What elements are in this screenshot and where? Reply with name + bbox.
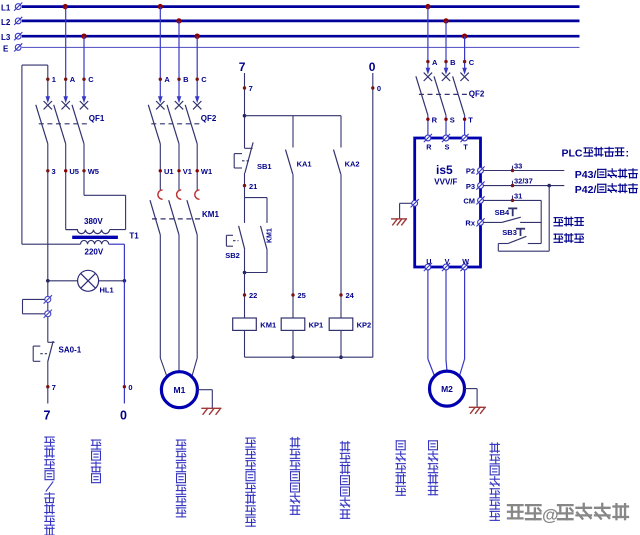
svg-text:0: 0 — [128, 383, 132, 392]
contact KM1 auxiliary blade — [261, 226, 268, 250]
node 0 mid — [371, 86, 374, 89]
node U1 — [159, 169, 162, 172]
junction on power rail — [158, 4, 163, 9]
inverter terminal P3 — [476, 182, 484, 190]
svg-text:QF2: QF2 — [201, 114, 217, 123]
terminal L3 — [14, 32, 22, 40]
svg-text:C: C — [469, 58, 475, 67]
svg-text:@: @ — [542, 506, 559, 525]
ground inverter — [391, 218, 407, 225]
switch SA0-1 fixed bar — [48, 341, 55, 343]
switch SA0-1 actuator — [32, 346, 34, 361]
svg-text:SB2: SB2 — [225, 251, 240, 260]
svg-text:33: 33 — [514, 162, 522, 171]
circuit breaker QF2 trip linkage — [151, 123, 200, 125]
power rail L3 — [22, 35, 580, 38]
svg-text:KA2: KA2 — [345, 159, 360, 168]
wire 220V right lead — [109, 243, 125, 245]
svg-text:U1: U1 — [164, 167, 174, 176]
junction P3 branch — [547, 184, 551, 188]
coil KP1 — [281, 318, 305, 330]
ground rail E — [22, 46, 580, 48]
terminal L1 — [14, 3, 22, 11]
wire KM1 pole3 to M1 — [196, 235, 198, 358]
wire number flag 32/37 — [512, 181, 514, 186]
wire M1 to ground — [197, 389, 212, 391]
svg-text:U: U — [426, 257, 431, 266]
inverter terminal P2 — [476, 166, 484, 174]
node W5 — [82, 169, 85, 172]
circuit breaker QF1 pole 1 contact — [46, 96, 51, 103]
wire KA2 upper — [340, 116, 342, 148]
contactor KM1 pole 1 contact — [158, 190, 163, 199]
connector terminal upper — [44, 295, 52, 303]
svg-text:is5: is5 — [436, 163, 453, 177]
switch SB4 blade — [502, 217, 521, 222]
svg-text:T: T — [468, 115, 473, 124]
svg-text:W5: W5 — [88, 167, 99, 176]
wire KA2 to node24 — [340, 174, 342, 318]
node C qf2 — [196, 78, 199, 81]
svg-text:380V: 380V — [84, 217, 103, 226]
terminal E — [14, 43, 22, 51]
circuit breaker QF2 pole C contact — [195, 96, 200, 103]
transformer T1 secondary winding 220V — [81, 240, 109, 244]
wire QF2 poleC lower — [196, 144, 198, 190]
wire L2 to QF2 pole B — [178, 21, 180, 97]
wire number flag 31 — [512, 196, 514, 201]
wire Rx output — [483, 221, 501, 223]
junction lamp-left — [46, 279, 50, 283]
svg-text:KP2: KP2 — [357, 321, 372, 330]
svg-text:24: 24 — [346, 291, 355, 300]
wire L2 to QF2r pole B — [445, 21, 447, 69]
wire QF2r poleB to S — [445, 115, 447, 135]
junction on power rail — [443, 18, 448, 23]
svg-text:L3: L3 — [1, 33, 11, 42]
wire 220V left lead — [22, 243, 81, 245]
contactor KM1 linkage — [152, 218, 200, 220]
node U5 — [64, 169, 67, 172]
wire QF2r poleC to T — [464, 115, 466, 135]
svg-text:31: 31 — [514, 192, 522, 201]
switch SB3 actuator — [516, 228, 525, 230]
motor M2 — [430, 371, 465, 406]
node 0 left — [123, 385, 126, 388]
svg-text:C: C — [88, 75, 94, 84]
svg-text:32/37: 32/37 — [514, 177, 533, 186]
wire W5 jog — [84, 194, 126, 196]
wire QF1 poleA lower — [65, 144, 67, 230]
wire lamp row right — [99, 280, 125, 282]
wire inverter ground — [400, 202, 412, 204]
wire SB3 left feed — [498, 243, 508, 245]
junction on power rail — [176, 18, 181, 23]
contact KA1 blade — [286, 150, 293, 175]
svg-text:3: 3 — [52, 167, 56, 176]
circuit breaker QF2r pole B contact — [444, 68, 449, 75]
pushbutton SB1 fixed bar — [245, 147, 253, 149]
connector bypass wire — [23, 298, 45, 300]
circuit breaker QF2r pole C contact — [462, 68, 467, 75]
wire SB3 right terminal — [528, 243, 541, 245]
svg-text:0: 0 — [120, 409, 127, 423]
label shou dong tui — [554, 218, 562, 226]
node A — [64, 78, 67, 81]
svg-text:B: B — [183, 75, 189, 84]
junction on power rail — [81, 34, 86, 39]
svg-text:W1: W1 — [201, 167, 212, 176]
wire 7 rail — [244, 73, 246, 148]
junction KP1 rail — [291, 355, 295, 359]
wire P3 branch loop — [548, 186, 550, 252]
wire L3 to QF2 pole C — [196, 36, 198, 97]
ground M1 — [201, 408, 221, 415]
svg-text:P43/: P43/ — [575, 169, 597, 181]
wire KP2 coil to rail — [340, 330, 342, 357]
svg-text:7: 7 — [52, 383, 56, 392]
junction on power rail — [63, 4, 68, 9]
inverter terminal CM — [476, 196, 484, 204]
wire P2 output 33 — [483, 170, 564, 172]
transformer T1 primary winding 380V — [66, 230, 110, 234]
wire below connector — [47, 317, 49, 342]
wire L1 to QF2 pole A — [159, 7, 161, 97]
inverter terminal T — [461, 134, 469, 142]
power rail L2 — [22, 20, 580, 23]
inverter terminal W — [461, 263, 469, 271]
svg-text:CM: CM — [463, 197, 475, 206]
wire parallel branch bottom — [244, 249, 246, 272]
svg-text:SB1: SB1 — [257, 162, 272, 171]
node 7 left — [46, 385, 49, 388]
wire 0 rail — [372, 73, 374, 357]
switch SB4 actuator — [508, 207, 517, 209]
ground M2 — [469, 407, 486, 414]
svg-text:P3: P3 — [466, 182, 475, 191]
wire above connector — [47, 281, 49, 297]
connector terminal lower — [44, 310, 52, 318]
svg-text::: : — [626, 147, 630, 159]
svg-text:22: 22 — [249, 291, 257, 300]
svg-text:SB3: SB3 — [502, 228, 517, 237]
inverter terminal V — [442, 263, 450, 271]
junction on power rail — [425, 4, 430, 9]
circuit breaker QF2 pole B contact — [177, 96, 182, 103]
contactor KM1 pole 2 contact — [177, 190, 182, 199]
svg-text:T1: T1 — [129, 231, 139, 240]
svg-text:220V: 220V — [85, 247, 104, 256]
svg-text:25: 25 — [298, 291, 306, 300]
svg-text:KM1: KM1 — [202, 210, 219, 219]
svg-text:M1: M1 — [173, 385, 185, 395]
pushbutton SB1 actuator — [233, 154, 235, 168]
svg-text:T: T — [463, 143, 468, 152]
label column youbeng dianji zhu dianlu — [176, 440, 185, 449]
circuit breaker QF1 pole C contact — [82, 96, 87, 103]
circuit breaker QF2 pole A contact — [158, 96, 163, 103]
svg-text:7: 7 — [44, 409, 51, 423]
svg-text:B: B — [450, 58, 456, 67]
indicator lamp HL1 — [78, 270, 99, 291]
contact KA2 blade — [334, 150, 341, 175]
svg-text:L2: L2 — [1, 18, 11, 27]
svg-text:QF1: QF1 — [89, 114, 105, 123]
wire node22 — [244, 273, 246, 319]
wire lamp row left — [48, 280, 78, 282]
watermark toutiao — [508, 505, 523, 518]
svg-text:M2: M2 — [441, 384, 453, 394]
terminal L2 — [14, 17, 22, 25]
svg-text:A: A — [432, 58, 438, 67]
switch SA0-1 blade — [48, 341, 53, 362]
motor M1 — [161, 372, 197, 408]
svg-text:R: R — [432, 115, 438, 124]
wire 220V neutral drop — [123, 281, 125, 404]
wire node1 drop — [47, 65, 49, 97]
svg-text:KP1: KP1 — [309, 321, 324, 330]
svg-text:SA0-1: SA0-1 — [59, 345, 82, 354]
svg-text:P42/: P42/ — [575, 184, 597, 196]
svg-text:KM1: KM1 — [267, 228, 274, 243]
svg-text:A: A — [164, 75, 170, 84]
svg-text:QF2: QF2 — [469, 89, 485, 98]
svg-text:P2: P2 — [466, 167, 475, 176]
wire QF1 pole1 lower — [47, 144, 49, 281]
inverter terminal U — [424, 263, 432, 271]
svg-text:E: E — [3, 44, 9, 53]
label column youbeng dianji kongzhi dianlu — [246, 438, 255, 447]
svg-text:U5: U5 — [69, 167, 79, 176]
wire KA1 upper — [292, 116, 294, 148]
junction rejoin — [243, 271, 247, 275]
coil KP2 — [329, 318, 353, 330]
wire QF2r poleA to R — [427, 115, 429, 135]
junction on power rail — [462, 34, 467, 39]
wire KM1 pole1 to M1 — [159, 235, 161, 358]
inverter terminal S — [442, 134, 450, 142]
label column bianpin shoudong tui — [429, 441, 438, 450]
contactor KM1 pole 3 contact — [195, 190, 200, 199]
wire KA1 to node25 — [292, 174, 294, 318]
wire number flag 33 — [512, 166, 514, 171]
svg-text:SB4: SB4 — [495, 208, 510, 217]
wire SB1 to node21 — [244, 173, 246, 198]
inverter U1 box — [415, 138, 481, 267]
power rail L1 — [22, 5, 580, 8]
junction on power rail — [195, 34, 200, 39]
wire inverter V to M2 — [445, 270, 447, 360]
node B qf2r — [444, 60, 447, 63]
svg-text:A: A — [70, 75, 76, 84]
wire M2 to ground — [465, 388, 478, 390]
svg-text:7: 7 — [239, 60, 246, 74]
svg-text:7: 7 — [249, 84, 253, 93]
wire QF2 poleA lower — [159, 144, 161, 190]
svg-text:VVV/F: VVV/F — [434, 177, 457, 186]
svg-text:Rx: Rx — [465, 219, 475, 228]
label column daoju shangxing qiyafa — [340, 441, 349, 451]
junction KP2 rail — [339, 355, 343, 359]
label column dianyuan zhishi — [91, 440, 100, 449]
pushbutton SB2 blade — [244, 198, 246, 223]
circuit breaker QF2r trip linkage — [419, 93, 468, 95]
node A qf2 — [159, 78, 162, 81]
wire control tap horizontal — [22, 64, 48, 66]
wire L3 to QF1 pole C — [83, 36, 85, 97]
svg-text:0: 0 — [377, 84, 381, 93]
svg-text:PLC: PLC — [562, 147, 583, 159]
svg-text:1: 1 — [52, 75, 56, 84]
wire KP1 coil to rail — [292, 330, 294, 357]
node C qf2r — [463, 60, 466, 63]
wire inverter W to M2 — [464, 270, 466, 359]
wire KM1 coil to rail — [244, 330, 246, 357]
node R — [426, 118, 429, 121]
svg-text:L1: L1 — [1, 4, 11, 13]
svg-text:S: S — [450, 115, 455, 124]
node 25 — [291, 293, 294, 296]
svg-text:R: R — [426, 143, 432, 152]
node A qf2r — [426, 60, 429, 63]
node 24 — [339, 293, 342, 296]
wire L3 to QF2r pole C — [464, 36, 466, 68]
wire between connector terminals — [47, 303, 49, 311]
label column daoju xiaxing qiyafa — [290, 437, 299, 447]
wire inverter U to M2 — [427, 270, 429, 359]
svg-text:W: W — [462, 257, 469, 266]
node 21 — [243, 184, 246, 187]
node 3 — [46, 169, 49, 172]
label column zouliao bianpin zhu dianlu — [490, 443, 499, 453]
wire bottom rail — [245, 356, 373, 358]
svg-text:0: 0 — [369, 60, 376, 74]
label shou dong jin — [554, 234, 562, 242]
svg-text:21: 21 — [249, 182, 257, 191]
circuit breaker QF1 trip linkage — [39, 123, 87, 125]
wire branch horizontal — [245, 115, 342, 117]
svg-text:V1: V1 — [183, 167, 192, 176]
svg-text:V: V — [445, 257, 450, 266]
node W1 — [196, 169, 199, 172]
node 22 — [243, 293, 246, 296]
node C — [82, 78, 85, 81]
wire CM output 31 — [483, 199, 541, 201]
node 7 mid — [243, 86, 246, 89]
wire SB4 to CM — [520, 221, 541, 223]
wire control tap left vertical — [21, 65, 23, 244]
coil KM1 — [233, 318, 257, 330]
junction branch — [243, 114, 247, 118]
node T — [463, 118, 466, 121]
label column bianpin shoudong jin — [396, 441, 405, 450]
label column kongzhi dianyuan — [45, 437, 54, 446]
wire L1 to QF1 pole A — [65, 7, 67, 97]
circuit breaker QF1 pole A contact — [63, 96, 68, 103]
node S — [444, 118, 447, 121]
transformer T1 core — [72, 236, 118, 239]
svg-text:KA1: KA1 — [297, 159, 312, 168]
svg-text:S: S — [445, 143, 450, 152]
inverter terminal R — [424, 134, 432, 142]
svg-text:C: C — [201, 75, 207, 84]
node 1 — [46, 78, 49, 81]
wire QF1 poleC lower — [83, 144, 85, 196]
wire KM1 pole2 to M1 — [178, 235, 180, 372]
wire L1 to QF2r pole A — [427, 7, 429, 69]
inverter terminal Rx — [476, 218, 484, 226]
svg-text:HL1: HL1 — [100, 285, 114, 294]
wire QF2 poleB lower — [178, 144, 180, 190]
svg-text:KM1: KM1 — [260, 321, 276, 330]
node V1 — [177, 169, 180, 172]
junction lamp-right — [123, 279, 127, 283]
wire SA0-1 to node7 — [47, 362, 49, 404]
pushbutton SB2 actuator — [225, 235, 227, 246]
pushbutton SB1 blade — [245, 142, 253, 173]
wire parallel branch top — [245, 197, 268, 199]
switch SB3 blade — [508, 236, 526, 243]
node B qf2 — [177, 78, 180, 81]
wire P3 output 32/37 — [483, 185, 564, 187]
inverter terminal ground — [411, 199, 419, 207]
circuit breaker QF2r pole A contact — [426, 68, 431, 75]
